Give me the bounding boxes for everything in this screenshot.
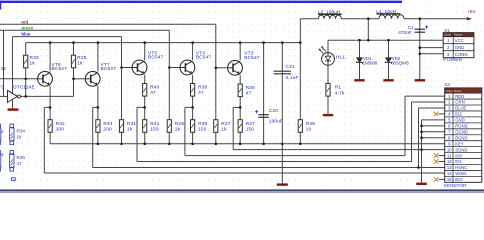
svg-text:Conn: Conn bbox=[446, 89, 453, 93]
svg-text:R33: R33 bbox=[30, 55, 39, 61]
svg-text:1k: 1k bbox=[77, 61, 83, 67]
svg-text:R35: R35 bbox=[77, 55, 86, 61]
svg-text:BC547: BC547 bbox=[196, 55, 212, 61]
svg-text:ID3: ID3 bbox=[455, 177, 462, 182]
svg-text:150: 150 bbox=[246, 126, 255, 132]
svg-text:GND: GND bbox=[455, 45, 465, 50]
svg-text:R37: R37 bbox=[246, 121, 255, 127]
svg-text:BC547: BC547 bbox=[148, 55, 164, 61]
svg-text:R46: R46 bbox=[17, 155, 26, 160]
svg-text:10: 10 bbox=[447, 147, 452, 152]
svg-text:150: 150 bbox=[150, 126, 159, 132]
svg-text:GRN: GRN bbox=[455, 100, 465, 105]
svg-text:R44: R44 bbox=[103, 121, 112, 127]
svg-text:11: 11 bbox=[447, 153, 452, 158]
svg-text:R34: R34 bbox=[17, 128, 26, 133]
svg-text:ID0: ID0 bbox=[455, 153, 462, 158]
svg-text:1k: 1k bbox=[221, 126, 227, 132]
svg-text:BC547: BC547 bbox=[101, 66, 117, 72]
svg-text:470uF: 470uF bbox=[398, 30, 411, 35]
svg-text:R27: R27 bbox=[221, 121, 230, 127]
svg-text:X2: X2 bbox=[444, 82, 450, 87]
svg-text:green: green bbox=[21, 25, 33, 30]
svg-text:R42: R42 bbox=[56, 121, 65, 127]
svg-text:R36: R36 bbox=[246, 85, 255, 91]
svg-text:13: 13 bbox=[447, 165, 452, 170]
svg-text:1k: 1k bbox=[127, 126, 133, 132]
svg-text:GGND: GGND bbox=[455, 129, 468, 134]
svg-text:R31: R31 bbox=[127, 121, 136, 127]
svg-text:0,1uF: 0,1uF bbox=[286, 75, 299, 81]
svg-text:BLUE: BLUE bbox=[455, 106, 466, 111]
svg-text:200: 200 bbox=[103, 126, 112, 132]
svg-text:14: 14 bbox=[447, 171, 452, 176]
svg-text:47: 47 bbox=[246, 90, 252, 96]
svg-text:Name: Name bbox=[454, 89, 462, 93]
svg-text:R1: R1 bbox=[335, 85, 342, 91]
svg-text:VSNC: VSNC bbox=[455, 171, 467, 176]
svg-text:BGND: BGND bbox=[455, 135, 467, 140]
svg-text:47: 47 bbox=[150, 90, 156, 96]
svg-text:GND: GND bbox=[455, 118, 465, 123]
svg-text:R38: R38 bbox=[198, 84, 207, 90]
svg-text:+5V: +5V bbox=[467, 9, 476, 14]
svg-text:100uF: 100uF bbox=[269, 118, 283, 124]
svg-text:HL1.: HL1. bbox=[336, 55, 347, 61]
svg-text:MONITOR: MONITOR bbox=[444, 183, 467, 189]
svg-text:ID1: ID1 bbox=[455, 159, 462, 164]
svg-text:VCC: VCC bbox=[455, 38, 464, 43]
svg-text:1k: 1k bbox=[17, 135, 23, 140]
svg-text:Name: Name bbox=[454, 33, 462, 37]
svg-text:R39: R39 bbox=[198, 121, 207, 127]
svg-text:4E: 4E bbox=[1, 66, 7, 71]
svg-text:ID2: ID2 bbox=[455, 112, 462, 117]
svg-text:DTC114E: DTC114E bbox=[13, 85, 35, 91]
svg-text:10: 10 bbox=[306, 126, 312, 132]
svg-text:R29: R29 bbox=[175, 121, 184, 127]
svg-text:POWER: POWER bbox=[443, 57, 462, 63]
svg-text:RED: RED bbox=[455, 94, 464, 99]
svg-text:RGND: RGND bbox=[455, 124, 468, 129]
svg-text:1k: 1k bbox=[30, 61, 36, 67]
svg-text:HSNC: HSNC bbox=[455, 165, 467, 170]
svg-text:blue: blue bbox=[21, 31, 31, 36]
svg-text:4,7k: 4,7k bbox=[335, 90, 345, 96]
svg-text:L1 10uH: L1 10uH bbox=[376, 9, 396, 15]
svg-text:1N5808: 1N5808 bbox=[363, 61, 378, 66]
svg-text:BC547: BC547 bbox=[52, 66, 68, 72]
svg-text:F3: F3 bbox=[0, 85, 4, 90]
svg-text:C21: C21 bbox=[286, 64, 295, 70]
svg-text:Conn: Conn bbox=[444, 33, 451, 37]
svg-text:SGND: SGND bbox=[455, 147, 467, 152]
svg-text:47: 47 bbox=[17, 161, 23, 166]
svg-text:150: 150 bbox=[198, 126, 207, 132]
svg-text:15: 15 bbox=[447, 177, 452, 182]
svg-text:12: 12 bbox=[447, 159, 452, 164]
svg-text:200: 200 bbox=[56, 126, 65, 132]
svg-text:R45: R45 bbox=[306, 121, 315, 127]
svg-text:C20: C20 bbox=[269, 108, 278, 114]
svg-text:1k: 1k bbox=[175, 126, 181, 132]
svg-text:R40: R40 bbox=[150, 84, 159, 90]
svg-text:80SQ045: 80SQ045 bbox=[391, 61, 409, 66]
svg-text:47: 47 bbox=[198, 90, 204, 96]
svg-text:BC547: BC547 bbox=[244, 55, 260, 61]
svg-text:L2 100uH: L2 100uH bbox=[318, 9, 341, 15]
svg-text:R41: R41 bbox=[150, 121, 159, 127]
svg-text:red: red bbox=[21, 19, 28, 24]
svg-text:KEY: KEY bbox=[455, 141, 464, 146]
